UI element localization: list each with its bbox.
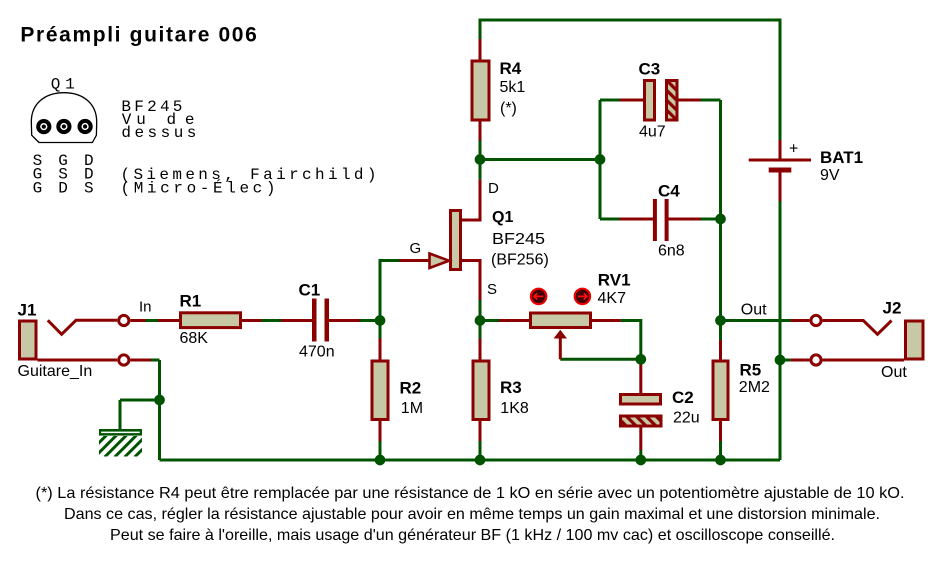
- svg-text:22u: 22u: [673, 410, 700, 427]
- svg-text:RV1: RV1: [598, 271, 631, 290]
- svg-text:R3: R3: [500, 378, 522, 397]
- svg-text:BAT1: BAT1: [820, 148, 863, 167]
- svg-text:R1: R1: [180, 292, 202, 311]
- svg-text:Guitare_In: Guitare_In: [18, 363, 93, 380]
- svg-text:1K8: 1K8: [500, 400, 529, 417]
- svg-text:In: In: [139, 299, 152, 316]
- svg-text:Dans ce cas, régler la résista: Dans ce cas, régler la résistance ajusta…: [64, 506, 880, 523]
- svg-text:S: S: [487, 281, 497, 298]
- svg-text:C2: C2: [672, 388, 694, 407]
- svg-text:Préampli guitare 006: Préampli guitare 006: [20, 24, 256, 47]
- svg-text:Peut se faire à l'oreille, mai: Peut se faire à l'oreille, mais usage d'…: [110, 527, 835, 544]
- svg-text:Q1: Q1: [492, 209, 513, 226]
- svg-text:G D S: G D S: [33, 179, 94, 197]
- svg-text:(BF256): (BF256): [491, 252, 549, 269]
- svg-text:(*) La résistance R4 peut être: (*) La résistance R4 peut être remplacée…: [36, 485, 905, 502]
- svg-text:470n: 470n: [299, 343, 335, 360]
- svg-text:5k1: 5k1: [500, 79, 526, 96]
- svg-text:J1: J1: [18, 301, 37, 320]
- svg-text:R4: R4: [500, 59, 522, 78]
- svg-text:G: G: [410, 240, 422, 257]
- svg-text:68K: 68K: [180, 330, 209, 347]
- svg-text:Out: Out: [741, 301, 767, 318]
- svg-text:D: D: [488, 180, 499, 197]
- svg-text:1M: 1M: [401, 400, 423, 417]
- svg-text:C1: C1: [299, 281, 321, 300]
- svg-text:Out: Out: [881, 364, 907, 381]
- svg-text:BF245: BF245: [492, 231, 545, 248]
- svg-text:C4: C4: [658, 182, 680, 201]
- svg-text:R5: R5: [740, 361, 762, 380]
- svg-text:9V: 9V: [820, 167, 840, 184]
- svg-text:+: +: [789, 141, 798, 158]
- svg-text:4u7: 4u7: [639, 123, 666, 140]
- svg-text:C3: C3: [639, 60, 661, 79]
- svg-text:4K7: 4K7: [598, 290, 627, 307]
- svg-text:(*): (*): [500, 100, 517, 117]
- svg-text:6n8: 6n8: [658, 243, 685, 260]
- svg-text:2M2: 2M2: [739, 379, 770, 396]
- svg-text:R2: R2: [400, 379, 422, 398]
- svg-text:J2: J2: [883, 299, 902, 318]
